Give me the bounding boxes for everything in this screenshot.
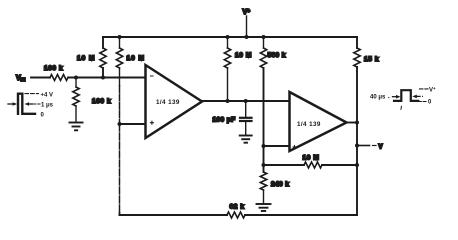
wire right line down to bottom rail (356, 67, 358, 215)
resistor R9 10M (feedback) (264, 155, 358, 169)
node junction R2 bottom (101, 76, 105, 80)
svg-text:1 μs: 1 μs (41, 103, 54, 109)
comparator U1b 1/4 139 (290, 92, 347, 151)
node junction C1 top on output wire (244, 99, 248, 103)
wire input node to comparator A upper input (68, 77, 146, 79)
node junction feedback left (262, 163, 266, 167)
wire R2 bottom lead (102, 68, 104, 78)
svg-text:V+: V+ (429, 86, 436, 93)
resistor R6 560k (260, 37, 285, 68)
input pulse annotation (8, 93, 54, 119)
svg-text:1/4 139: 1/4 139 (297, 121, 321, 128)
wire down to bottom rail (dashed-faded in scan) (119, 124, 121, 213)
svg-text:10 M: 10 M (303, 155, 320, 162)
resistor R3 10M (right pull-up) (116, 37, 145, 68)
svg-text:VIN: VIN (16, 75, 26, 82)
svg-text:100 k: 100 k (44, 65, 63, 72)
wire to comparator B lower input (264, 145, 290, 147)
wire R6 node down to feedback node (263, 146, 265, 172)
resistor R10 62k (227, 204, 245, 219)
wire left rail drop to R2 (102, 37, 104, 48)
svg-text:240 k: 240 k (271, 181, 289, 188)
ground under R4 (70, 123, 83, 131)
svg-text:40 μs: 40 μs (370, 95, 386, 101)
svg-text:560 k: 560 k (268, 52, 286, 59)
node junction rail-R3 (118, 35, 122, 39)
resistor R2 10M (left pull-up) (77, 48, 106, 68)
node junction output on right line (355, 121, 359, 125)
svg-text:0: 0 (428, 99, 432, 105)
node junction V+ on rail (245, 35, 249, 39)
svg-text:10 M: 10 M (235, 52, 252, 59)
svg-text:+4 V: +4 V (41, 93, 54, 99)
resistor R4 100k (to ground) (73, 78, 111, 122)
resistor R8 15k (output pull-up) (354, 37, 379, 67)
ground under C1 (240, 136, 252, 143)
wire bottom rail (120, 214, 228, 216)
resistor R7 240k (260, 172, 289, 203)
wire R6 lead down crossing output wire to comparator B lower input node (263, 68, 265, 146)
ground under R7 (257, 204, 271, 211)
svg-text:V+: V+ (243, 9, 251, 17)
resistor R5 10M (output pull-up) (224, 37, 252, 101)
wire comparator A lower input (120, 123, 146, 125)
svg-text:100 pF: 100 pF (213, 117, 236, 124)
svg-text:V: V (379, 145, 383, 151)
wire comparator B output (347, 122, 358, 124)
node junction V output terminal (355, 144, 359, 148)
node junction R5 top on rail (226, 35, 230, 39)
wire R3 lead down crossing input wire to comparator A lower input (119, 68, 121, 86)
node junction R6 top on rail (262, 35, 266, 39)
resistor R1 100k (input series) (44, 65, 68, 81)
svg-text:10 M: 10 M (77, 55, 95, 62)
svg-text:0: 0 (41, 113, 45, 119)
power V+ terminal (243, 9, 251, 38)
node V output terminal lead (357, 145, 383, 151)
svg-text:100 k: 100 k (92, 98, 111, 105)
wire comparator A output to comparator B upper input (202, 100, 290, 102)
node junction R4 top (74, 76, 78, 80)
capacitor C1 100 pF (213, 101, 252, 135)
wire bottom rail right part (245, 214, 357, 216)
wire Vin lead (31, 77, 50, 79)
svg-text:15 k: 15 k (364, 56, 379, 63)
output pulse annotation (370, 86, 436, 109)
node junction feedback right (355, 163, 359, 167)
svg-text:62 k: 62 k (230, 204, 245, 211)
wire top V+ rail (103, 36, 357, 38)
comparator U1a 1/4 139 (146, 65, 203, 138)
svg-text:10 M: 10 M (127, 55, 145, 62)
node junction at comparator A lower input tap (118, 122, 122, 126)
node junction R5 bottom on output wire (226, 99, 230, 103)
node junction comparator B lower input (262, 144, 266, 148)
svg-text:1/4 139: 1/4 139 (156, 99, 180, 106)
